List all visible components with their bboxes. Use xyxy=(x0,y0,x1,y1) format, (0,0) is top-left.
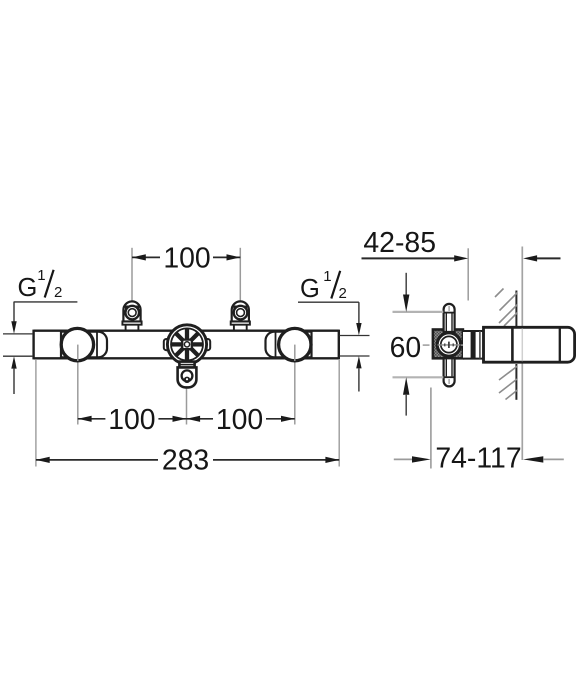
svg-text:42-85: 42-85 xyxy=(363,227,436,259)
wall hatching lower xyxy=(499,366,518,400)
valve top arm xyxy=(444,304,455,332)
center valve handwheel xyxy=(167,325,206,364)
handwheel side bump left xyxy=(164,339,170,350)
extension line above right stub xyxy=(239,248,241,303)
svg-text:74-117: 74-117 xyxy=(435,443,521,475)
dimension 60 xyxy=(390,273,444,416)
valve flange square xyxy=(433,330,463,359)
svg-text:G: G xyxy=(300,275,320,303)
centerline inside right ball xyxy=(294,345,296,361)
dimension 100-100 bottom xyxy=(78,404,295,436)
svg-text:2: 2 xyxy=(339,285,347,302)
wall rough line lower xyxy=(515,364,517,400)
right end box edge xyxy=(311,331,313,358)
svg-text:60: 60 xyxy=(390,332,422,364)
top stub left xyxy=(122,301,141,330)
centerline below left fitting xyxy=(77,345,79,425)
svg-text:100: 100 xyxy=(108,404,155,436)
svg-text:1: 1 xyxy=(37,267,45,284)
wall rough line upper xyxy=(515,291,517,327)
svg-text:2: 2 xyxy=(54,284,62,301)
left union ball xyxy=(61,328,93,360)
dimension 100 top xyxy=(132,242,240,274)
dimension 42-85 xyxy=(362,227,561,262)
extension line 42-85 left xyxy=(467,248,469,300)
valve bottom arm xyxy=(444,358,455,386)
svg-text:100: 100 xyxy=(163,242,210,274)
top stub right xyxy=(231,301,250,330)
svg-text:G: G xyxy=(18,274,38,302)
svg-text:100: 100 xyxy=(216,404,263,436)
center outlet below wheel xyxy=(178,362,197,388)
centerline inside left ball xyxy=(77,345,79,361)
right union capsule xyxy=(266,332,312,358)
centerline below right fitting xyxy=(294,345,296,425)
dimension 283 xyxy=(36,445,339,477)
wall finished-surface line xyxy=(521,247,523,461)
valve body circle xyxy=(423,333,467,356)
label G1/2 right xyxy=(298,268,370,392)
handwheel side bump right xyxy=(204,339,210,350)
right union ball xyxy=(279,328,311,360)
connection nipple xyxy=(463,331,484,360)
extension line above left stub xyxy=(131,248,133,303)
mounting sleeve cylinder xyxy=(483,327,574,364)
left end box edge xyxy=(60,331,62,358)
wall hatching upper xyxy=(495,289,518,327)
label G1/2 left xyxy=(3,267,77,394)
extension line 283 left xyxy=(35,360,37,467)
left union capsule xyxy=(61,332,107,358)
centerline below middle outlet xyxy=(186,386,188,425)
extension line 283 right xyxy=(338,360,340,467)
svg-text:283: 283 xyxy=(162,445,209,477)
extension line 74-117 left xyxy=(430,388,432,469)
mounting bar outline xyxy=(34,330,339,360)
svg-text:1: 1 xyxy=(323,268,331,285)
dimension 74-117 xyxy=(394,443,564,475)
